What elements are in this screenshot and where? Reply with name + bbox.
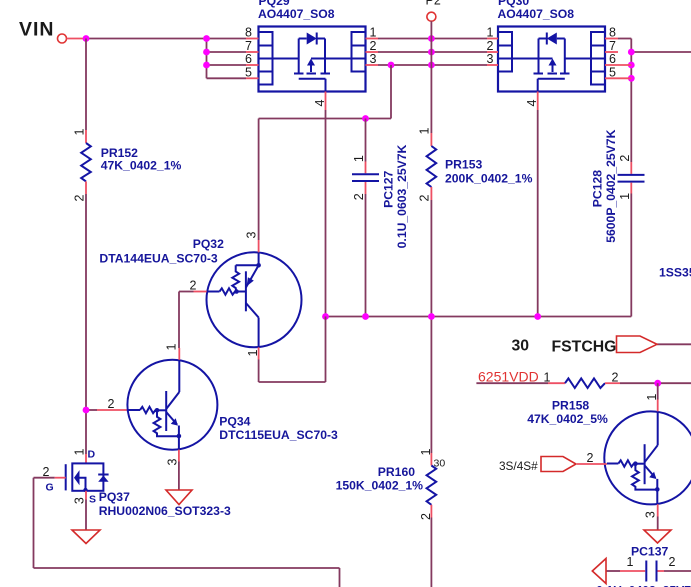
- svg-text:47K_0402_1%: 47K_0402_1%: [101, 159, 182, 173]
- svg-text:2: 2: [352, 193, 366, 200]
- wire PQ38 pin1 vertical: [657, 383, 659, 399]
- svg-text:6251VDD: 6251VDD: [478, 369, 539, 385]
- svg-text:2: 2: [419, 513, 433, 520]
- svg-text:30: 30: [512, 338, 530, 355]
- svg-text:2: 2: [418, 194, 432, 201]
- svg-text:1: 1: [645, 394, 659, 401]
- junction dots right rail: [628, 49, 635, 82]
- ground PQ37: [72, 530, 100, 544]
- svg-text:1: 1: [165, 343, 179, 350]
- wire net 6251VDD row: [476, 382, 691, 384]
- svg-text:S: S: [89, 494, 96, 506]
- svg-text:2: 2: [370, 39, 377, 53]
- svg-text:5: 5: [245, 65, 252, 79]
- wire PQ34 pin2 red stub: [97, 409, 129, 411]
- svg-text:1: 1: [618, 193, 632, 200]
- svg-text:4: 4: [525, 99, 539, 106]
- svg-text:5600P_0402_25V7K: 5600P_0402_25V7K: [604, 129, 618, 242]
- svg-text:200K_0402_1%: 200K_0402_1%: [445, 172, 533, 186]
- svg-text:DTA144EUA_SC70-3: DTA144EUA_SC70-3: [99, 252, 218, 266]
- svg-text:7: 7: [609, 39, 616, 53]
- wire PQ34 pin3 to ground: [178, 462, 180, 490]
- svg-text:PR153: PR153: [445, 158, 482, 172]
- svg-text:8: 8: [245, 26, 252, 40]
- svg-text:0.1U_0402_25V7K: 0.1U_0402_25V7K: [596, 584, 691, 587]
- svg-text:2: 2: [618, 155, 632, 162]
- svg-text:2: 2: [73, 194, 87, 201]
- wire PQ38 pin3 to ground: [657, 517, 659, 530]
- ground PQ38: [644, 530, 671, 543]
- svg-text:1SS35: 1SS35: [659, 266, 691, 280]
- svg-text:PR160: PR160: [378, 465, 415, 479]
- svg-text:0.1U_0603_25V7K: 0.1U_0603_25V7K: [395, 144, 409, 248]
- svg-text:2: 2: [108, 397, 115, 411]
- wire PQ32 pin2 to PQ34 pin1: [179, 292, 194, 349]
- svg-text:3: 3: [245, 231, 259, 238]
- svg-text:2: 2: [487, 39, 494, 53]
- svg-text:VIN: VIN: [19, 19, 55, 41]
- svg-text:1: 1: [72, 448, 86, 455]
- junction dot PQ34 base node: [83, 407, 90, 414]
- pin stubs PQ29: [246, 38, 259, 40]
- svg-text:D: D: [88, 449, 96, 461]
- svg-text:6: 6: [609, 52, 616, 66]
- svg-text:3: 3: [72, 497, 86, 504]
- svg-text:1: 1: [370, 26, 377, 40]
- svg-text:AO4407_SO8: AO4407_SO8: [498, 7, 575, 21]
- junction VIN node dots: [83, 35, 210, 68]
- wire down to PQ32 pin3: [258, 119, 260, 241]
- label 1SS35 (cut at edge): [659, 266, 691, 280]
- net label VIN: [19, 19, 55, 41]
- resistor PR160 150K_0402_1%: [336, 448, 446, 520]
- svg-text:3: 3: [644, 511, 658, 518]
- svg-text:P2: P2: [426, 0, 441, 8]
- svg-text:8: 8: [609, 26, 616, 40]
- junction dot 6251VDD branch: [654, 380, 661, 387]
- wire PQ37 gate loop bottom: [34, 478, 340, 587]
- svg-text:30: 30: [434, 458, 446, 470]
- svg-text:PQ32: PQ32: [193, 237, 224, 251]
- wire bottom bus y=316.5: [326, 316, 632, 318]
- transistor PQ38 (cut at right edge): [577, 394, 691, 518]
- wire PQ29 pin4 vertical: [325, 110, 327, 317]
- node VIN terminal: [58, 34, 87, 43]
- net label 6251VDD: [478, 369, 539, 385]
- ground PQ34: [166, 490, 192, 505]
- svg-text:6: 6: [245, 52, 252, 66]
- svg-text:3S/4S#: 3S/4S#: [499, 459, 538, 473]
- svg-text:2: 2: [43, 465, 50, 479]
- input tag 3S/4S#: [499, 457, 576, 474]
- transistor PQ34 DTC115EUA_SC70-3: [108, 343, 339, 465]
- svg-text:PR158: PR158: [552, 399, 589, 413]
- transistor PQ32 DTA144EUA_SC70-3: [99, 231, 301, 359]
- svg-text:47K_0402_5%: 47K_0402_5%: [527, 412, 608, 426]
- svg-text:1: 1: [487, 26, 494, 40]
- svg-text:DTC115EUA_SC70-3: DTC115EUA_SC70-3: [219, 428, 338, 442]
- svg-text:PC127: PC127: [382, 170, 396, 207]
- wire PQ32 collector loop to bus: [259, 317, 326, 383]
- svg-text:1: 1: [544, 371, 551, 385]
- pin stubs PQ30: [487, 38, 498, 40]
- wire PQ30 pin4 vertical: [537, 110, 539, 317]
- wire right rail x=631.3 pins 5-8: [618, 39, 631, 317]
- capacitor PC127 0.1U_0603_25V7K: [352, 144, 409, 248]
- wire VIN vertical jog x=206.5: [207, 39, 247, 79]
- connector P2: [426, 0, 441, 21]
- junction dot PC127 top: [362, 115, 369, 122]
- svg-text:PC137: PC137: [631, 545, 668, 559]
- port tag FSTCHG: [617, 336, 658, 353]
- svg-text:3: 3: [487, 52, 494, 66]
- wire gate branch x=391 down to y=118.5: [259, 65, 391, 119]
- svg-text:PQ34: PQ34: [219, 415, 250, 429]
- svg-text:2: 2: [190, 279, 197, 293]
- label 30 FSTCHG: [512, 338, 617, 356]
- resistor PR158 47K_0402_5%: [527, 371, 620, 427]
- wire pin7 row to right edge: [631, 51, 691, 53]
- wire P2 rail vertical: [430, 21, 432, 587]
- svg-text:2: 2: [669, 555, 676, 569]
- svg-text:1: 1: [73, 128, 87, 135]
- svg-text:5: 5: [609, 65, 616, 79]
- svg-text:FSTCHG: FSTCHG: [552, 339, 617, 356]
- svg-text:PQ37: PQ37: [99, 490, 130, 504]
- svg-text:7: 7: [245, 39, 252, 53]
- svg-text:2: 2: [612, 371, 619, 385]
- svg-text:1: 1: [419, 448, 433, 455]
- svg-text:4: 4: [313, 99, 327, 106]
- svg-text:1: 1: [352, 155, 366, 162]
- mosfet PQ29 AO4407_SO8: [245, 0, 378, 110]
- capacitor PC137 0.1U_0402_25V7K: [592, 545, 691, 587]
- svg-text:2: 2: [587, 451, 594, 465]
- wire rows PQ29 to PQ30: [378, 39, 487, 66]
- wire FSTCHG to right edge: [657, 343, 691, 345]
- svg-text:AO4407_SO8: AO4407_SO8: [258, 7, 335, 21]
- transistor PQ37 RHU002N06_SOT323-3: [43, 448, 231, 518]
- junction dots P2 rail: [388, 35, 435, 68]
- svg-text:1: 1: [418, 127, 432, 134]
- svg-text:150K_0402_1%: 150K_0402_1%: [336, 479, 424, 493]
- wire VIN rail down left x=86: [86, 39, 97, 455]
- resistor PR153 200K_0402_1%: [418, 127, 533, 201]
- svg-text:G: G: [46, 482, 54, 494]
- wire PQ37 source to ground: [85, 500, 87, 530]
- svg-text:3: 3: [166, 458, 180, 465]
- svg-text:PC128: PC128: [591, 170, 605, 207]
- junction dots bottom bus: [322, 313, 541, 320]
- resistor PR152 47K_0402_1%: [73, 128, 182, 201]
- wire PC137 row: [606, 570, 691, 572]
- svg-text:3: 3: [370, 52, 377, 66]
- mosfet PQ30 AO4407_SO8: [487, 0, 632, 110]
- wire PC127 rail: [365, 119, 367, 317]
- capacitor PC128 5600P_0402_25V7K: [591, 129, 645, 242]
- wire VIN row to PQ29 pin8: [86, 38, 246, 40]
- svg-text:RHU002N06_SOT323-3: RHU002N06_SOT323-3: [99, 504, 231, 518]
- svg-text:1: 1: [246, 349, 260, 356]
